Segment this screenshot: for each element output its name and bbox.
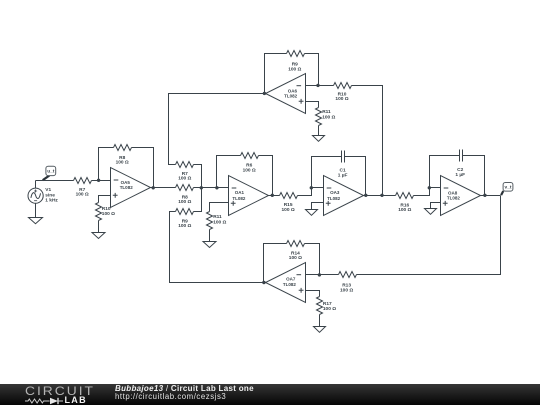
svg-text:100 Ω: 100 Ω xyxy=(323,306,336,312)
svg-text:R11: R11 xyxy=(213,214,222,220)
junction OA7 output/feedback xyxy=(262,281,265,284)
resistor R13 xyxy=(339,272,357,294)
wire OA8 feedback left/top xyxy=(430,156,460,188)
svg-text:TL082: TL082 xyxy=(284,94,298,99)
svg-text:100 Ω: 100 Ω xyxy=(398,207,411,213)
wire OA3 output xyxy=(364,195,396,197)
resistor R14 (OA7 feedback) xyxy=(287,241,305,262)
ground at OA8 + input xyxy=(425,209,437,215)
svg-text:100 Ω: 100 Ω xyxy=(340,287,353,293)
junction OA1 output/feedback xyxy=(271,194,274,197)
svg-text:100 Ω: 100 Ω xyxy=(289,255,302,261)
ground at OA3 + input xyxy=(306,210,318,216)
wire V1 bottom lead xyxy=(35,204,37,218)
op-amp OA1 TL082 xyxy=(229,176,269,216)
footer title text xyxy=(115,385,254,403)
op-amp OA7 TL082 xyxy=(266,263,306,303)
svg-text:100 Ω: 100 Ω xyxy=(213,219,226,225)
junction OA8 output/feedback xyxy=(483,194,486,197)
wire OA3 output up to R10 xyxy=(352,86,383,196)
svg-text:100 Ω: 100 Ω xyxy=(116,160,129,166)
svg-text:OA3: OA3 xyxy=(330,190,340,195)
resistor R6 (OA1 feedback) xyxy=(241,153,259,174)
wire summing node to OA1 xyxy=(194,187,229,189)
wire OA5 feedback left/top xyxy=(99,148,114,181)
svg-text:100 Ω: 100 Ω xyxy=(282,207,295,213)
op-amp OA5 TL082 xyxy=(111,168,151,208)
wire OA5 output xyxy=(151,187,176,189)
svg-text:R10: R10 xyxy=(102,206,111,212)
resistor R7 (summing, top) xyxy=(176,162,194,182)
resistor R9 (summing, bottom) xyxy=(176,209,194,229)
junction OA6 inverting input xyxy=(316,84,319,87)
resistor R8 (summing, middle) xyxy=(176,185,194,206)
ground below R10 xyxy=(92,233,105,239)
svg-text:100 Ω: 100 Ω xyxy=(322,114,335,120)
wire OA8 output to corner xyxy=(481,195,501,197)
junction OA7 inverting input xyxy=(318,273,321,276)
junction OA5 output/feedback xyxy=(152,186,155,189)
junction OA5 inverting input xyxy=(97,179,100,182)
wire R10 to ground xyxy=(98,221,100,233)
wire V1 to R7 xyxy=(36,180,74,182)
wire OA8 feedback right xyxy=(463,156,485,196)
op-amp OA6 TL082 xyxy=(266,74,306,114)
svg-text:TL082: TL082 xyxy=(283,282,297,287)
svg-text:R17: R17 xyxy=(323,301,332,307)
junction summing node xyxy=(200,186,203,189)
wire R17 to ground xyxy=(319,315,321,327)
capacitor C1 1uF xyxy=(338,151,348,179)
ground below V1 xyxy=(29,218,43,224)
wire OA8 + input to ground xyxy=(431,203,441,209)
svg-text:100 Ω: 100 Ω xyxy=(288,66,301,72)
junction OA1 inverting input xyxy=(215,186,218,189)
wire R9 to summing node xyxy=(194,188,202,212)
wire OA1 + input to R11 xyxy=(210,203,229,212)
svg-text:1 µF: 1 µF xyxy=(338,173,348,179)
svg-text:TL082: TL082 xyxy=(327,196,341,201)
svg-text:TL082: TL082 xyxy=(120,185,134,190)
svg-text:100 Ω: 100 Ω xyxy=(178,199,191,205)
wire OA7 feedback left/top xyxy=(264,244,287,283)
wire OA3 + input to ground xyxy=(312,203,324,210)
wire OA1 feedback left/top xyxy=(217,156,241,188)
svg-text:C1: C1 xyxy=(340,167,346,173)
wire OA5 + input to R10 xyxy=(99,196,111,203)
svg-text:OA6: OA6 xyxy=(288,88,298,93)
wire OA6 + input to R11 xyxy=(306,102,319,108)
wire R7 to OA5 inverting input xyxy=(92,180,111,182)
wire R10 to OA6 inverting input xyxy=(306,85,334,87)
resistor R16 xyxy=(396,193,414,213)
svg-text:100 Ω: 100 Ω xyxy=(243,167,256,173)
ground below R17 xyxy=(314,327,326,333)
wire OA3 feedback left/top xyxy=(312,157,342,188)
wire R15 to OA3 inverting input xyxy=(298,188,324,196)
wire OA7 feedback right xyxy=(305,244,320,275)
wire OA3 feedback right xyxy=(345,157,366,196)
wire R11 to ground xyxy=(209,230,211,242)
resistor R17 (OA7 + to ground) xyxy=(317,297,337,315)
capacitor C2 1uF xyxy=(455,150,465,179)
wire OA7 - input xyxy=(306,274,339,276)
wire R13 to OA8 output xyxy=(357,196,501,275)
ground below R11 xyxy=(203,242,216,248)
resistor R11 (OA6 + to ground) xyxy=(316,108,336,126)
op-amp OA3 TL082 xyxy=(324,176,364,216)
resistor R10 (OA5 + to ground) xyxy=(96,203,116,221)
resistor R8 (OA5 feedback) xyxy=(114,145,132,166)
svg-text:sine: sine xyxy=(45,192,55,198)
svg-text:V1: V1 xyxy=(45,187,51,193)
wire R11 to ground xyxy=(318,126,320,136)
svg-text:100 Ω: 100 Ω xyxy=(335,96,348,102)
svg-text:u_t: u_t xyxy=(47,169,55,175)
wire OA6 feedback right xyxy=(305,54,319,86)
junction OA3 output to OA6 branch xyxy=(380,194,383,197)
resistor R11 (OA1 + to ground) xyxy=(207,212,227,230)
junction OA3 output/feedback xyxy=(364,194,367,197)
wire OA5 feedback right xyxy=(132,148,154,188)
svg-text:OA1: OA1 xyxy=(235,190,245,195)
ground below OA6 R11 xyxy=(313,136,325,142)
svg-text:1 kHz: 1 kHz xyxy=(45,197,58,203)
resistor R7 (input) xyxy=(74,178,92,198)
svg-text:1 µF: 1 µF xyxy=(455,172,465,178)
wire OA6 feedback left/top xyxy=(265,54,287,94)
junction OA6 output/feedback xyxy=(263,92,266,95)
svg-text:R11: R11 xyxy=(322,109,331,115)
junction OA8 inverting input xyxy=(428,186,431,189)
node v_t flag xyxy=(501,183,513,196)
svg-text:OA7: OA7 xyxy=(286,276,296,281)
wire R16 to OA8 inverting input xyxy=(414,188,441,196)
junction OA3 inverting input xyxy=(310,186,313,189)
svg-text:100 Ω: 100 Ω xyxy=(76,192,89,198)
svg-text:v_t: v_t xyxy=(505,185,512,191)
svg-text:TL082: TL082 xyxy=(232,196,246,201)
wire OA7 + input to R17 xyxy=(306,291,320,297)
svg-text:100 Ω: 100 Ω xyxy=(178,223,191,229)
wire from OA7 output up to R9 xyxy=(170,212,266,283)
svg-text:100 Ω: 100 Ω xyxy=(102,211,115,217)
resistor R9 (OA6 feedback) xyxy=(287,51,305,73)
wire V1 top lead xyxy=(35,181,37,189)
wire from OA6 output down to R7 xyxy=(169,94,266,165)
wire OA1 feedback right xyxy=(259,156,273,196)
wire R7 to summing node xyxy=(194,165,202,188)
op-amp OA8 TL082 xyxy=(441,176,481,216)
svg-text:TL082: TL082 xyxy=(447,196,461,201)
resistor R15 xyxy=(280,193,298,213)
svg-text:C2: C2 xyxy=(457,167,463,173)
svg-text:100 Ω: 100 Ω xyxy=(178,176,191,182)
node u_t flag xyxy=(43,166,56,180)
voltage source V1 (sine 1 kHz) xyxy=(28,187,58,203)
CircuitLab logo xyxy=(25,384,115,405)
wire OA1 output xyxy=(269,195,280,197)
resistor R10 (OA6 input) xyxy=(334,83,352,103)
